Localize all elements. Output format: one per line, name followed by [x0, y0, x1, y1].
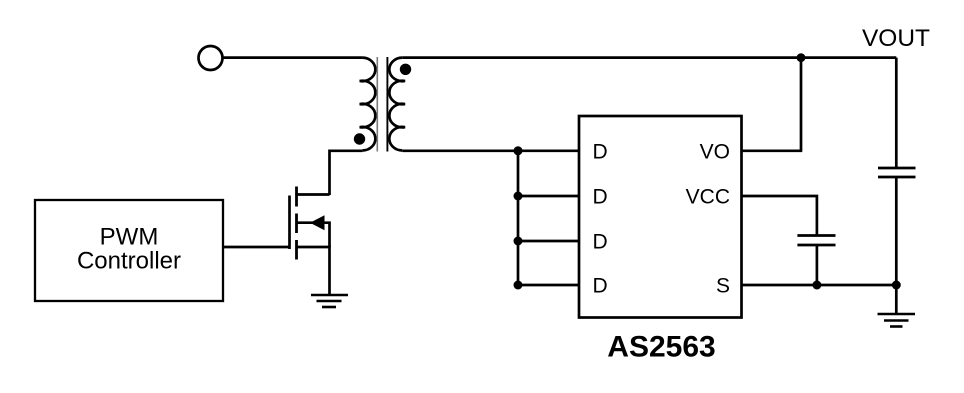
svg-text:D: D — [593, 275, 608, 298]
junction dot D1 — [514, 146, 523, 155]
wire VCC pin — [742, 196, 817, 236]
polarity dot secondary — [400, 64, 411, 75]
wire primary bottom to drain — [330, 151, 363, 195]
wire VOUT branch down to C2 — [895, 58, 898, 168]
input terminal — [199, 46, 223, 70]
transistor Q1 source connection — [297, 247, 330, 294]
svg-text:Controller: Controller — [77, 247, 181, 274]
wire C2 bottom to S rail — [895, 177, 898, 285]
node junction on VOUT rail — [797, 53, 806, 62]
capacitor C1 (VCC bypass) — [797, 234, 835, 237]
junction dot C1/S — [812, 281, 821, 290]
transistor Q1 gate bar — [288, 196, 291, 250]
svg-text:VCC: VCC — [686, 186, 730, 209]
wire gate — [223, 246, 290, 249]
transformer core — [376, 57, 378, 152]
transistor Q1 channel segments — [295, 187, 298, 260]
ground (source) — [311, 295, 348, 307]
svg-text:VO: VO — [700, 141, 730, 164]
svg-text:AS2563: AS2563 — [607, 331, 715, 364]
wire VO riser — [800, 58, 803, 151]
svg-text:PWM: PWM — [100, 223, 159, 250]
transformer T1 secondary winding — [389, 58, 405, 151]
wire pin D3 — [518, 240, 579, 243]
transistor Q1 body arrow — [310, 215, 325, 230]
wire D bus vertical — [517, 151, 520, 285]
transistor Q1 drain connection — [297, 193, 330, 196]
svg-text:D: D — [593, 231, 608, 254]
wire VO pin — [742, 149, 803, 152]
wire secondary top / VOUT rail — [402, 56, 896, 59]
wire to right ground — [895, 285, 898, 314]
wire secondary bottom to pin D1 — [402, 149, 579, 152]
wire pin D4 — [518, 284, 579, 287]
polarity dot primary — [354, 133, 365, 144]
junction dot S/ground — [892, 281, 901, 290]
capacitor C2 (output) — [878, 167, 916, 170]
wire primary top — [223, 56, 363, 59]
junction dot D3 — [514, 237, 523, 246]
transistor Q1 body connection — [297, 223, 330, 247]
svg-text:S: S — [716, 275, 730, 298]
IC U1 AS2563 box — [579, 116, 742, 318]
svg-text:VOUT: VOUT — [862, 25, 930, 52]
svg-text:D: D — [593, 186, 608, 209]
junction dot D2 — [514, 192, 523, 201]
svg-text:D: D — [593, 141, 608, 164]
wire C1 bottom to S rail — [816, 245, 819, 285]
wire S pin rail — [742, 284, 897, 287]
junction dot D4 — [514, 281, 523, 290]
ground (right) — [878, 314, 916, 327]
PWM controller box — [35, 200, 223, 301]
transformer T1 primary winding — [360, 58, 376, 151]
wire pin D2 — [518, 195, 579, 198]
